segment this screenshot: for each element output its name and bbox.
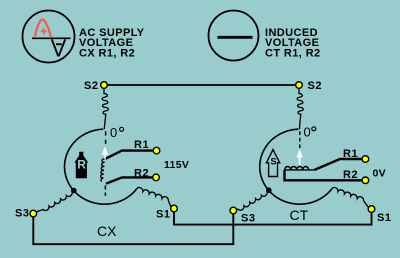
svg-text:S3: S3 bbox=[241, 213, 255, 225]
svg-text:S1: S1 bbox=[156, 209, 170, 221]
svg-text:CT: CT bbox=[290, 207, 309, 223]
svg-text:S2: S2 bbox=[84, 80, 98, 92]
svg-text:R2: R2 bbox=[134, 167, 149, 179]
svg-text:R1: R1 bbox=[343, 148, 358, 160]
svg-text:CX R1, R2: CX R1, R2 bbox=[79, 47, 135, 59]
svg-text:R2: R2 bbox=[343, 169, 358, 181]
svg-text:CT R1, R2: CT R1, R2 bbox=[265, 47, 321, 59]
svg-text:S: S bbox=[271, 156, 277, 166]
svg-text:115V: 115V bbox=[164, 159, 189, 171]
svg-text:CX: CX bbox=[97, 223, 117, 239]
svg-text:S3: S3 bbox=[15, 208, 29, 220]
svg-text:R1: R1 bbox=[134, 139, 149, 151]
svg-text:0: 0 bbox=[304, 125, 311, 140]
svg-text:S1: S1 bbox=[377, 212, 391, 224]
svg-text:R: R bbox=[77, 157, 86, 171]
svg-text:0: 0 bbox=[110, 125, 117, 140]
svg-text:0V: 0V bbox=[373, 168, 386, 180]
svg-text:S2: S2 bbox=[308, 80, 322, 92]
